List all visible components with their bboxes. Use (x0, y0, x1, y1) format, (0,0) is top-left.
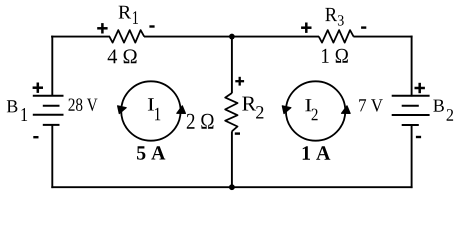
resistor R2 label subscript 2 (256, 106, 263, 118)
mesh loop I2 left arrowhead (282, 106, 291, 114)
wire right vertical bottom (411, 125, 413, 188)
mesh current I1 label (148, 98, 154, 110)
B1 voltage label 28 V (69, 98, 98, 111)
resistor R2 label (242, 97, 256, 111)
battery B1 long plate 1 (33, 95, 64, 97)
R2 plus sign (235, 77, 244, 86)
battery B2 short plate 1 (402, 105, 419, 107)
mesh loop I1 left arrowhead (118, 106, 127, 114)
battery B1 short plate 1 (43, 105, 60, 107)
mesh loop I1 circle (121, 81, 180, 140)
battery B2 label subscript 2 (447, 109, 454, 121)
wire bottom rail (51, 186, 412, 188)
wire middle vertical top (231, 36, 233, 94)
wire middle vertical bottom (231, 131, 233, 187)
R1 value 4 ohms (108, 49, 137, 63)
resistor R3 label (325, 8, 337, 21)
battery B1 label (7, 100, 18, 112)
wire top rail left segment (51, 36, 110, 38)
wire top rail right segment (353, 36, 412, 38)
R3 plus sign (301, 23, 311, 33)
B1 minus sign (33, 136, 38, 138)
R1 minus sign (149, 25, 154, 27)
node junction dot top (229, 34, 235, 40)
node junction dot bottom (229, 184, 235, 190)
wire left vertical top (51, 36, 53, 97)
mesh loop I2 right arrowhead (342, 106, 351, 114)
mesh loop I2 circle (286, 81, 345, 140)
battery B2 long plate 2 (392, 114, 430, 116)
mesh current I1 label subscript 1 (155, 108, 160, 120)
B2 minus sign (416, 136, 421, 138)
resistor R1 zigzag (109, 30, 144, 42)
B2 plus sign (415, 83, 425, 93)
R2 value 2 ohms (187, 114, 214, 129)
battery B2 short plate 2 (402, 124, 419, 126)
wire top rail middle segment (144, 36, 319, 38)
battery B1 long plate 2 (33, 114, 64, 116)
I1 value 5 A (137, 146, 165, 160)
mesh loop I1 right arrowhead (177, 106, 186, 114)
resistor R1 label subscript 1 (133, 11, 138, 24)
R3 minus sign (361, 26, 366, 28)
R3 value 1 ohm (322, 49, 348, 63)
B2 voltage label 7 V (359, 99, 383, 112)
mesh current I2 label subscript 2 (312, 109, 318, 121)
R1 plus sign (97, 23, 107, 33)
resistor R3 zigzag (319, 30, 354, 42)
resistor R2 zigzag (225, 93, 237, 131)
resistor R3 label subscript 3 (338, 15, 344, 25)
I2 value 1 A (303, 146, 331, 160)
battery B2 label (433, 100, 444, 112)
R2 minus sign (235, 132, 240, 134)
resistor R1 label (119, 6, 132, 19)
battery B2 long plate 1 (392, 95, 430, 97)
battery B1 label subscript 1 (22, 108, 28, 121)
mesh current I2 label (305, 99, 311, 111)
wire right vertical top (411, 36, 413, 97)
battery B1 short plate 2 (43, 124, 60, 126)
wire left vertical bottom (51, 125, 53, 188)
B1 plus sign (33, 83, 43, 93)
